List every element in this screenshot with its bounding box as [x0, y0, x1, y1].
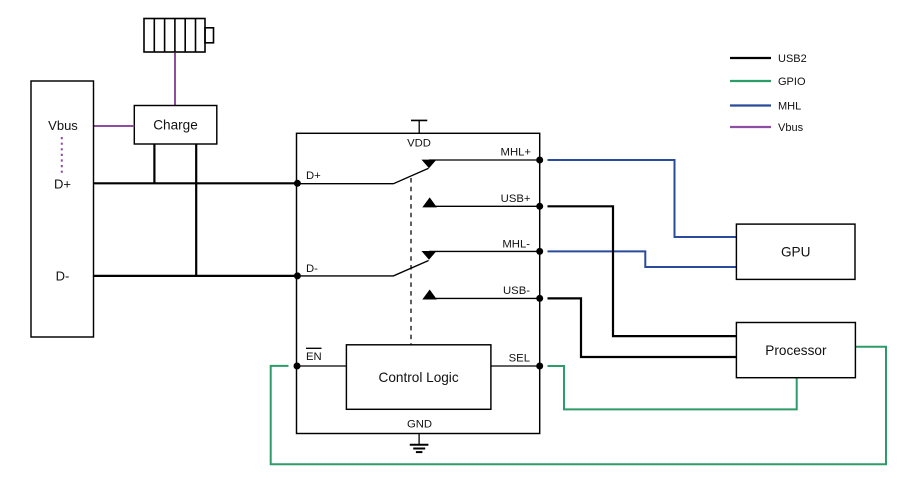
- svg-text:Vbus: Vbus: [778, 122, 804, 134]
- node D-: [294, 272, 301, 279]
- svg-text:USB+: USB+: [501, 193, 531, 205]
- connector J1 (USB receptacle): [31, 81, 94, 337]
- wire USB+ to Processor (black): [548, 206, 737, 336]
- wire control logic to SEL: [491, 365, 540, 367]
- contact MHL+ (triangle): [422, 160, 437, 169]
- ground: [410, 434, 429, 453]
- legend GPIO: [730, 80, 771, 82]
- svg-text:MHL: MHL: [778, 101, 801, 113]
- block GPU: [736, 224, 855, 279]
- wire Charge output to D+: [153, 144, 155, 183]
- legend MHL: [730, 104, 771, 106]
- node MHL-: [536, 248, 543, 255]
- node SEL: [536, 363, 543, 370]
- wire Vbus connector to Charge: [94, 125, 135, 127]
- wire switch pole D+: [297, 168, 428, 183]
- svg-text:MHL+: MHL+: [501, 147, 532, 159]
- wire switch pole D-: [297, 261, 428, 276]
- node EN: [294, 363, 301, 370]
- wire D- connector to switch: [94, 275, 298, 277]
- wire Processor to EN (green): [271, 347, 886, 465]
- contact USB+ (triangle): [422, 197, 437, 207]
- svg-text:Processor: Processor: [765, 343, 827, 358]
- svg-text:D-: D-: [306, 263, 318, 275]
- wire Vbus battery to Charge: [174, 53, 176, 106]
- svg-text:GPU: GPU: [781, 245, 810, 260]
- svg-text:VDD: VDD: [407, 138, 431, 150]
- node MHL+: [536, 157, 543, 164]
- node D+: [294, 180, 301, 187]
- legend Vbus: [730, 126, 771, 128]
- svg-text:EN: EN: [306, 351, 322, 363]
- wire Charge output to D-: [195, 144, 197, 276]
- wire USB+: [429, 205, 540, 207]
- svg-text:USB2: USB2: [778, 53, 807, 65]
- svg-text:Control Logic: Control Logic: [379, 370, 459, 385]
- svg-text:Charge: Charge: [153, 118, 198, 133]
- wire EN to control logic: [297, 365, 346, 367]
- wire MHL+: [429, 159, 540, 161]
- svg-text:GPIO: GPIO: [778, 76, 806, 88]
- IC U1 switch outline: [297, 133, 540, 433]
- svg-text:Vbus: Vbus: [48, 118, 78, 133]
- wire SEL to Processor (green): [548, 366, 797, 409]
- contact MHL- (triangle): [422, 251, 437, 260]
- svg-text:D+: D+: [54, 177, 71, 192]
- svg-text:MHL-: MHL-: [502, 238, 530, 250]
- block Charge: [134, 106, 217, 145]
- battery BT1: [144, 19, 214, 53]
- block Processor: [736, 323, 855, 378]
- wire D+ connector to switch: [94, 182, 298, 184]
- power pin VDD: [411, 120, 427, 133]
- wire USB-: [429, 297, 540, 299]
- svg-text:D+: D+: [306, 170, 321, 182]
- node USB-: [536, 295, 543, 302]
- node USB+: [536, 203, 543, 210]
- wire MHL-: [429, 250, 540, 252]
- block Control Logic: [346, 345, 491, 410]
- dotted continuation: [61, 137, 63, 175]
- dashed control line: [410, 178, 412, 345]
- wire USB- to Processor (black): [548, 298, 737, 357]
- contact USB- (triangle): [422, 290, 437, 300]
- svg-text:GND: GND: [407, 419, 432, 431]
- legend USB2: [730, 57, 771, 59]
- svg-text:SEL: SEL: [509, 353, 530, 365]
- wire MHL+ to GPU (blue): [548, 160, 737, 237]
- wire MHL- to GPU (blue): [548, 251, 737, 267]
- svg-text:USB-: USB-: [503, 285, 530, 297]
- svg-text:D-: D-: [56, 269, 70, 284]
